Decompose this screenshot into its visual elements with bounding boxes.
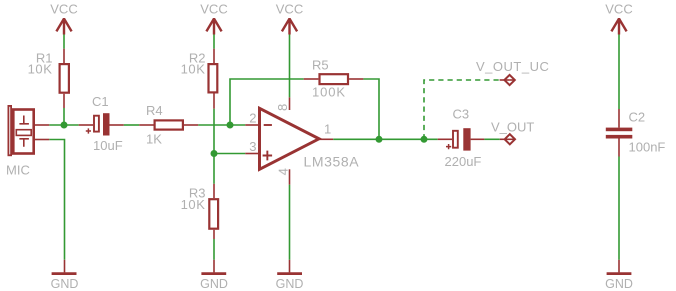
node B junction	[211, 150, 218, 157]
wire VCC to C2	[618, 35, 620, 110]
svg-text:C2: C2	[629, 110, 646, 125]
wire op-amp pin 4 to GND	[289, 185, 291, 260]
wire C1 to R4	[124, 124, 139, 126]
svg-text:VCC: VCC	[605, 1, 632, 16]
wire VCC to R1	[63, 35, 65, 49]
svg-text:10K: 10K	[28, 62, 53, 77]
wire R3 to GND	[213, 239, 215, 260]
svg-text:1K: 1K	[146, 132, 162, 147]
power symbol VCC (net VCC, column of R2)	[206, 18, 221, 35]
microphone MIC	[8, 106, 49, 155]
wire R4 to node C / op-amp pin 2	[198, 124, 245, 126]
svg-text:1: 1	[324, 122, 331, 137]
pad V_OUT_UC	[500, 75, 515, 85]
svg-text:2: 2	[249, 110, 256, 125]
wire MIC pin+ to node A	[49, 124, 78, 126]
svg-text:C3: C3	[453, 107, 470, 122]
svg-text:C1: C1	[92, 94, 109, 109]
wire VCC to op-amp pin 8	[289, 35, 291, 98]
ground GND (R3 column)	[201, 260, 226, 274]
svg-text:VCC: VCC	[276, 1, 303, 16]
dashed wire node E to V_OUT_UC pad	[424, 80, 500, 139]
capacitor C2	[606, 109, 633, 157]
wire node B to R3	[213, 154, 215, 184]
svg-text:MIC: MIC	[6, 162, 30, 177]
node E junction	[421, 136, 428, 143]
resistor R4	[139, 120, 198, 129]
pad V_OUT	[500, 134, 515, 144]
ground GND (C2 column)	[607, 260, 632, 274]
svg-text:8: 8	[275, 104, 290, 111]
wire MIC pin- to GND column	[49, 140, 64, 260]
power symbol VCC (net VCC, op-amp pin 8 column)	[282, 18, 297, 35]
wire R5 down to node D (output)	[363, 79, 379, 139]
wire node C up and over to R5 (feedback)	[230, 79, 304, 125]
resistor R2	[209, 49, 218, 109]
capacitor C1 (polarized)	[79, 113, 124, 135]
wire R1 to node A	[63, 108, 65, 125]
wire VCC to R2	[213, 35, 215, 49]
power symbol VCC (net VCC, column of R1)	[56, 18, 71, 35]
svg-text:100nF: 100nF	[629, 140, 666, 155]
svg-text:R5: R5	[312, 58, 329, 73]
svg-text:GND: GND	[276, 277, 304, 291]
wire op-amp output to node E	[333, 138, 437, 140]
svg-text:10K: 10K	[181, 62, 206, 77]
svg-text:10uF: 10uF	[93, 138, 123, 153]
svg-text:3: 3	[249, 139, 256, 154]
svg-text:VCC: VCC	[200, 1, 227, 16]
svg-text:4: 4	[276, 168, 291, 175]
resistor R5	[304, 74, 364, 84]
svg-text:GND: GND	[605, 277, 633, 291]
svg-text:LM358A: LM358A	[304, 153, 360, 169]
resistor R3	[209, 184, 218, 239]
node A junction	[61, 122, 68, 129]
op-amp U1 LM358A	[245, 97, 333, 184]
wire C3 to V_OUT pad	[484, 138, 499, 140]
svg-text:VCC: VCC	[50, 1, 77, 16]
wire C2 to GND	[618, 157, 620, 260]
svg-text:R4: R4	[146, 103, 163, 118]
wire node B to op-amp pin 3	[214, 153, 245, 155]
resistor R1	[60, 49, 69, 108]
node D junction	[376, 136, 383, 143]
svg-text:V_OUT: V_OUT	[491, 119, 534, 134]
svg-text:10K: 10K	[181, 197, 206, 212]
svg-text:GND: GND	[200, 277, 228, 291]
node C junction	[227, 122, 234, 129]
pin number 4	[276, 168, 291, 175]
wire R2 to node B	[213, 109, 215, 154]
ground GND (MIC column)	[52, 260, 77, 274]
pin number 8	[275, 104, 290, 111]
svg-text:100K: 100K	[312, 85, 346, 100]
svg-text:GND: GND	[51, 277, 79, 291]
ground GND (op-amp pin 4 column)	[277, 260, 302, 274]
power symbol VCC (net VCC, column of C2)	[611, 18, 626, 35]
svg-text:220uF: 220uF	[445, 154, 482, 169]
capacitor C3 (polarized)	[438, 128, 485, 150]
svg-text:V_OUT_UC: V_OUT_UC	[476, 59, 549, 74]
